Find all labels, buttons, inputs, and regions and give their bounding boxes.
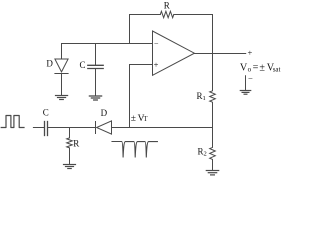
svg-text:+: + xyxy=(248,48,253,58)
svg-text:−: − xyxy=(154,40,159,49)
svg-text:D: D xyxy=(46,59,53,69)
svg-text:+: + xyxy=(154,60,159,70)
svg-text:R: R xyxy=(73,138,79,148)
svg-text:D: D xyxy=(101,108,108,118)
svg-text:C: C xyxy=(80,60,86,70)
svg-text:C: C xyxy=(43,107,49,117)
svg-text:R: R xyxy=(164,1,170,11)
svg-text:±VT: ±VT xyxy=(131,114,149,124)
svg-text:−: − xyxy=(248,73,253,83)
